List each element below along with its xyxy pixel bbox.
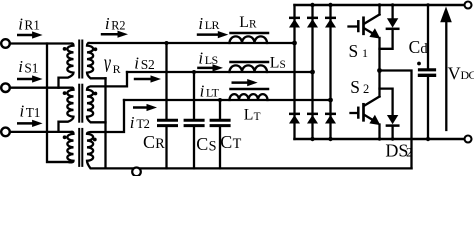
svg-text:T1: T1 bbox=[26, 105, 41, 120]
svg-text:i: i bbox=[200, 81, 205, 100]
svg-text:i: i bbox=[198, 14, 203, 33]
svg-text:S: S bbox=[280, 59, 286, 71]
svg-text:R1: R1 bbox=[24, 18, 40, 33]
svg-text:i: i bbox=[130, 113, 135, 132]
svg-text:C: C bbox=[143, 132, 155, 152]
svg-text:DC: DC bbox=[461, 68, 474, 82]
svg-text:T: T bbox=[254, 111, 261, 123]
svg-text:LT: LT bbox=[206, 86, 220, 100]
svg-text:d: d bbox=[420, 41, 428, 57]
svg-text:R2: R2 bbox=[111, 19, 125, 33]
svg-text:V: V bbox=[448, 64, 461, 84]
svg-text:LS: LS bbox=[205, 53, 218, 67]
svg-text:C: C bbox=[220, 132, 232, 152]
svg-text:i: i bbox=[20, 101, 25, 120]
svg-text:R: R bbox=[113, 62, 121, 76]
svg-text:T: T bbox=[233, 136, 242, 152]
svg-text:2: 2 bbox=[406, 145, 413, 160]
svg-text:i: i bbox=[134, 54, 139, 73]
svg-text:S1: S1 bbox=[24, 61, 38, 76]
svg-text:LR: LR bbox=[205, 18, 220, 32]
svg-text:C: C bbox=[196, 134, 208, 154]
svg-text:C: C bbox=[409, 37, 421, 57]
svg-text:i: i bbox=[198, 49, 203, 68]
svg-text:R: R bbox=[249, 18, 257, 30]
svg-text:S: S bbox=[350, 77, 360, 97]
svg-text:v: v bbox=[104, 49, 111, 78]
svg-text:DS: DS bbox=[385, 140, 408, 160]
svg-text:i: i bbox=[18, 14, 23, 33]
svg-text:R: R bbox=[155, 136, 165, 152]
svg-text:S: S bbox=[349, 41, 359, 61]
svg-text:2: 2 bbox=[363, 82, 369, 96]
svg-text:i: i bbox=[105, 14, 110, 33]
svg-text:i: i bbox=[18, 57, 23, 76]
svg-text:L: L bbox=[270, 55, 280, 72]
svg-text:L: L bbox=[244, 107, 254, 124]
svg-text:1: 1 bbox=[362, 46, 368, 60]
svg-text:S: S bbox=[209, 138, 217, 154]
svg-text:S2: S2 bbox=[141, 57, 155, 72]
svg-text:L: L bbox=[239, 14, 249, 31]
svg-text:T2: T2 bbox=[136, 117, 149, 131]
